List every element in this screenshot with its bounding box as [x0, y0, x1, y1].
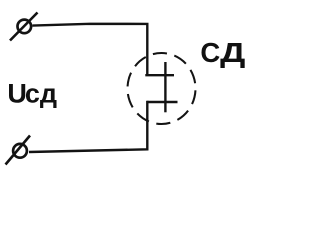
- svg-text:С: С: [200, 37, 220, 68]
- svg-text:Д: Д: [220, 37, 246, 68]
- svg-text:Uсд: Uсд: [7, 78, 57, 108]
